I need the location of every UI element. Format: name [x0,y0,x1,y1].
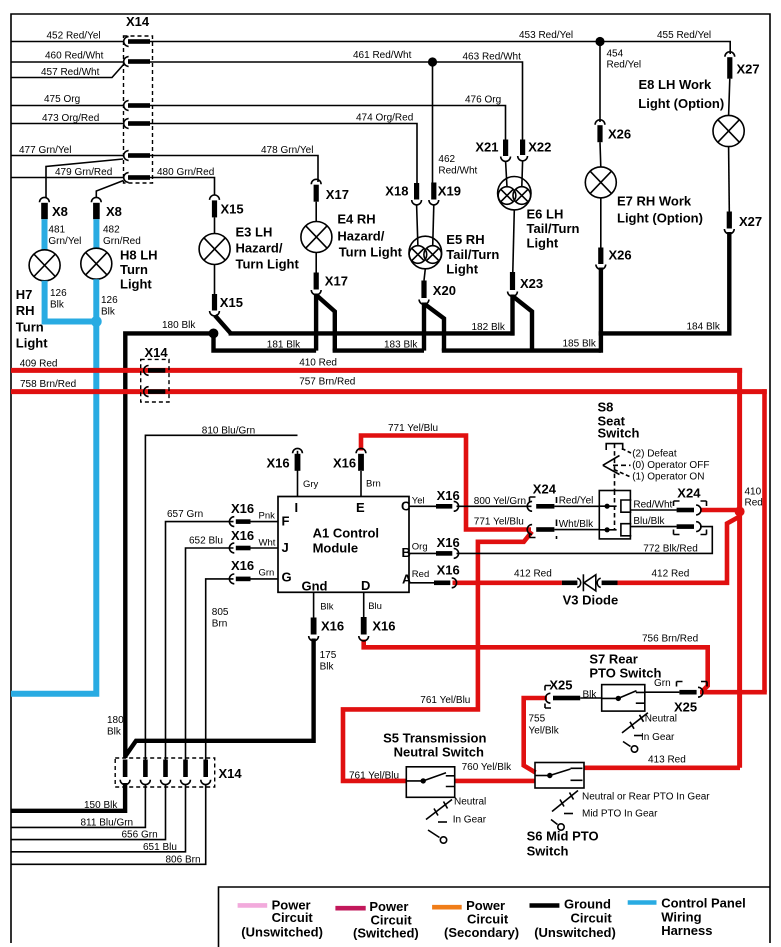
wire 482 branch to X8 [96,181,123,198]
wire 455 Red/Yel [600,42,730,55]
wire 771 Yel/Blu (E pin to X24) [361,436,531,530]
connector X16 (I pin) [267,448,303,470]
connector X23 [508,272,544,296]
wire 410 Red vertical [737,368,742,768]
wire X24 upper right to 410 [700,508,740,513]
svg-text:A1 Control: A1 Control [313,526,379,541]
connector X15 (upper) [210,195,244,217]
wire 412 Red (A pin to diode) [453,580,562,585]
connector X17 (lower) [311,273,348,295]
wire X19 to E5 [433,205,434,246]
svg-text:B: B [402,545,411,560]
connector X16 (E pin) [333,448,366,470]
wire 478 Grn/Yel [150,156,318,183]
wire 461 Red/Wht [150,61,433,63]
wire 476 Org [150,106,506,140]
wire 454 Red/Yel [599,42,601,123]
svg-text:Module: Module [313,541,359,556]
svg-text:181 Blk: 181 Blk [267,340,301,351]
wire 477 Grn/Yel [11,155,124,157]
svg-text:X16: X16 [231,558,254,573]
S5 lever symbol [426,797,487,844]
svg-text:806 Brn: 806 Brn [166,855,201,866]
wire 806 Brn [11,785,206,865]
wire X21 to E6 [506,162,507,188]
svg-text:X16: X16 [437,535,460,550]
svg-text:180 Blk: 180 Blk [162,320,196,331]
svg-text:X16: X16 [372,619,395,634]
wire 761 Yel/Blu (X24 to S5) [343,532,532,781]
svg-text:412 Red: 412 Red [652,569,690,580]
svg-text:Gry: Gry [303,479,319,490]
connector X18 [385,183,421,205]
svg-text:656 Grn: 656 Grn [122,830,158,841]
module A1 Control Module [278,497,412,594]
svg-text:X27: X27 [737,62,760,77]
svg-text:410: 410 [745,487,762,498]
svg-text:461 Red/Wht: 461 Red/Wht [353,50,412,61]
svg-text:S5 Transmission: S5 Transmission [383,731,486,746]
svg-text:182 Blk: 182 Blk [472,322,506,333]
svg-text:126: 126 [50,288,67,299]
wire 126 Blk (H7, cyan) [45,281,97,322]
svg-text:X14: X14 [145,345,169,360]
svg-text:126: 126 [101,295,118,306]
svg-text:Blk: Blk [320,662,335,673]
node 410/412 junction [735,507,745,517]
svg-text:X16: X16 [231,528,254,543]
svg-text:452 Red/Yel: 452 Red/Yel [47,31,101,42]
X14 bottom pin 2 [141,760,151,785]
wire 800 Yel/Grn (C pin to X24) [409,505,436,507]
X14 mid pin 1 [144,366,166,376]
wire 811 Blu/Grn [11,785,145,828]
wire X23 ground diagonal [513,297,532,351]
wire 772 Blk/Red (B pin to X24 lower right) [409,552,436,554]
connector X15 (lower) [210,294,243,316]
svg-text:(Unswitched): (Unswitched) [534,925,616,940]
connector X16 (D pin) [359,617,396,641]
svg-text:477 Grn/Yel: 477 Grn/Yel [19,145,71,156]
wire Wht/Blk (X24 to S8) [554,529,599,531]
svg-text:Blk: Blk [50,300,65,311]
svg-text:761 Yel/Blu: 761 Yel/Blu [349,770,399,781]
svg-text:Turn Light: Turn Light [339,245,403,260]
wire 474 Org/Red [150,124,417,184]
svg-text:I: I [295,500,299,515]
svg-text:J: J [282,540,289,555]
svg-text:X8: X8 [106,204,122,219]
wire 760 Yel/Blk (S5 to S6) [455,779,535,784]
svg-text:Yel/Blk: Yel/Blk [529,726,560,737]
svg-text:Red/Wht: Red/Wht [633,500,672,511]
svg-text:Blk: Blk [320,602,333,613]
wire X25 right to 757 vertical [700,690,767,695]
wire E4 to X17 lower [315,253,317,273]
svg-text:Blu: Blu [368,601,382,612]
connector X26 (lower) [596,248,632,270]
svg-text:756 Brn/Red: 756 Brn/Red [642,634,698,645]
svg-text:473 Org/Red: 473 Org/Red [42,113,99,124]
wire 475 Org [11,105,124,107]
connector X25 (right) [674,682,707,715]
svg-text:475 Org: 475 Org [44,94,80,105]
X14 bottom pin 1 [120,760,130,785]
svg-text:474 Org/Red: 474 Org/Red [356,113,413,124]
connector X16 (A pin) [434,563,460,588]
svg-text:S7 Rear: S7 Rear [589,652,637,667]
legend: Power Circuit (Switched) crimson [335,899,418,941]
svg-text:412 Red: 412 Red [514,569,552,580]
svg-text:Turn: Turn [16,320,44,335]
svg-text:E7 RH Work: E7 RH Work [617,194,692,209]
wire 183 Blk [333,348,424,352]
wire E8 to X27 lower [728,147,731,212]
connector X14 (middle, dashed housing) [141,345,169,402]
svg-text:X26: X26 [609,248,632,263]
svg-text:Brn: Brn [212,619,228,630]
svg-text:410 Red: 410 Red [299,358,337,369]
connector X16 (G pin) [229,558,254,584]
svg-text:X16: X16 [267,456,290,471]
svg-text:457 Red/Wht: 457 Red/Wht [41,67,100,78]
svg-text:150 Blk: 150 Blk [84,800,118,811]
svg-text:Light (Option): Light (Option) [638,96,724,111]
svg-text:X16: X16 [437,488,460,503]
svg-text:(Unswitched): (Unswitched) [241,925,323,940]
svg-text:Org: Org [412,542,428,553]
svg-text:Neutral: Neutral [645,714,677,725]
X14 bottom pin 5 [201,760,211,785]
svg-text:In Gear: In Gear [641,732,675,743]
svg-text:185 Blk: 185 Blk [563,339,597,350]
svg-text:481: 481 [48,225,65,236]
svg-text:S8: S8 [598,400,614,415]
wire 452 Red/Yel [11,41,124,43]
X14 bottom pin 3 [161,760,171,785]
svg-text:453 Red/Yel: 453 Red/Yel [519,30,573,41]
wire 651 Blu [11,785,186,852]
legend: Power Circuit (Secondary) orange [432,898,519,940]
svg-text:S6 Mid PTO: S6 Mid PTO [527,829,599,844]
svg-text:Blk: Blk [101,307,116,318]
svg-text:Turn Light: Turn Light [236,257,300,272]
svg-text:Grn: Grn [259,568,275,579]
svg-text:Light: Light [527,236,559,251]
wire E5 to X20 [424,269,425,281]
svg-text:X24: X24 [533,482,557,497]
wire 409/410 Red [11,368,742,373]
lamp H8 LH Turn Light [81,248,158,292]
svg-text:E5 RH: E5 RH [446,232,484,247]
wire ground from module Gnd pin [125,639,314,757]
wire 656 Grn [11,785,166,840]
wire E3 to X15 lower [214,265,216,295]
connector X16 (J pin) [229,528,254,553]
svg-text:G: G [282,570,292,585]
wire 412 Red (diode to 410 vertical) [618,517,740,583]
svg-text:Red/Wht: Red/Wht [438,166,477,177]
connector X14 (top, dashed housing) [124,14,153,183]
svg-text:Circuit: Circuit [272,910,314,925]
wire X23 ground drop [510,295,514,336]
wire X27 to E8 [729,79,730,116]
svg-text:X25: X25 [674,700,697,715]
wire 810 Blu/Grn (I pin) [297,451,299,497]
svg-text:Light: Light [16,336,48,351]
connector X24 (right pair) [674,486,707,535]
svg-text:Hazard/: Hazard/ [236,241,283,256]
svg-text:E8 LH Work: E8 LH Work [639,77,712,92]
wire 481 Grn/Yel (cyan) [42,219,48,250]
switch S8 Seat Switch [598,400,640,441]
svg-text:757 Brn/Red: 757 Brn/Red [299,377,355,388]
svg-text:Control Panel: Control Panel [661,896,746,911]
wire 185 Blk [442,348,601,352]
S8 selector symbol [603,444,710,491]
wire 181 Blk [214,334,317,351]
svg-text:Circuit: Circuit [571,911,613,926]
svg-text:Gnd: Gnd [302,579,328,594]
svg-text:760 Yel/Blk: 760 Yel/Blk [462,762,512,773]
svg-text:Grn/Red: Grn/Red [103,236,141,247]
wire 453 Red/Yel [150,41,600,43]
svg-text:184 Blk: 184 Blk [687,322,721,333]
wire A pin to X16 [409,582,434,584]
wire 482 Grn/Red (cyan) [93,219,99,249]
connector X27 (top) [725,52,760,79]
svg-text:651 Blu: 651 Blu [143,842,177,853]
svg-text:Hazard/: Hazard/ [337,229,384,244]
wire 481 branch to X8 [46,159,123,198]
svg-text:X16: X16 [437,563,460,578]
svg-text:RH: RH [16,303,35,318]
svg-text:F: F [282,514,290,529]
S8 switch box [599,491,631,539]
svg-text:(0) Operator OFF: (0) Operator OFF [632,460,709,471]
wire X18 to E5 [417,205,418,246]
svg-text:X26: X26 [608,127,631,142]
svg-text:X20: X20 [433,283,456,298]
svg-text:Blk: Blk [107,727,122,738]
svg-text:413 Red: 413 Red [648,755,686,766]
svg-text:175: 175 [320,650,337,661]
svg-text:X14: X14 [126,14,150,29]
wire E pin upper [360,471,362,497]
X14 pin 3 (475/476 Org) [124,101,150,111]
svg-text:(1) Operator ON: (1) Operator ON [632,472,704,483]
connector X27 (lower) [724,212,762,234]
connector X25 (left) [545,678,580,709]
svg-text:462: 462 [438,154,455,165]
svg-text:Light: Light [120,277,152,292]
svg-text:Turn: Turn [120,262,148,277]
svg-text:771 Yel/Blu: 771 Yel/Blu [474,517,524,528]
svg-text:Red/Yel: Red/Yel [559,496,594,507]
svg-text:E4 RH: E4 RH [337,212,375,227]
S6 lever symbol [551,791,710,831]
lamp E3 LH Hazard/Turn Light [199,225,299,272]
svg-text:X27: X27 [739,214,762,229]
svg-text:X8: X8 [52,204,68,219]
svg-text:X25: X25 [549,678,572,693]
connector X8 (H8) [91,197,122,219]
svg-text:Brn: Brn [366,479,381,490]
svg-text:Wht/Blk: Wht/Blk [559,519,594,530]
X14 pin 1 (452 Red/Yel) [124,37,150,47]
svg-text:Wht: Wht [259,538,276,549]
X14 pin 5 (477/478 Grn/Yel) [124,151,150,161]
lamp E4 RH Hazard/Turn Light [301,212,403,260]
svg-text:Yel: Yel [412,496,425,507]
svg-text:(2) Defeat: (2) Defeat [632,449,677,460]
svg-text:482: 482 [103,225,120,236]
svg-text:X24: X24 [677,486,701,501]
wire X17 ground drop [314,294,318,351]
wire 755 Yel/Blk (X25 left to S6) [524,698,547,773]
legend: Control Panel Wiring Harness cyan [628,896,746,939]
svg-text:X19: X19 [438,184,461,199]
wire E7 to X26 lower [600,198,602,248]
connector X8 (H7) [40,197,68,219]
wire Red/Yel (X24 to S8) [554,505,599,507]
svg-text:Neutral Switch: Neutral Switch [394,745,484,760]
svg-text:(Switched): (Switched) [353,926,419,941]
wire X15 ground diagonal [215,316,231,334]
wire 413 Red (S6 to 410 vertical) [584,765,740,770]
svg-text:409 Red: 409 Red [20,359,58,370]
svg-text:X18: X18 [385,184,408,199]
svg-text:478 Grn/Yel: 478 Grn/Yel [261,145,313,156]
wire 757 Brn/Red vertical [762,389,767,692]
wire 180 Blk (horizontal + vertical to bottom X14) [125,333,213,758]
svg-text:(Secondary): (Secondary) [444,925,519,940]
svg-text:H7: H7 [16,287,33,302]
svg-text:Harness: Harness [661,923,712,938]
svg-text:800 Yel/Grn: 800 Yel/Grn [474,496,526,507]
X14 mid pin 2 [144,387,166,397]
wire 657 Grn (F pin) [251,521,279,523]
legend: Power Circuit (Unswitched) pink [238,898,323,940]
svg-text:E3 LH: E3 LH [236,225,273,240]
connector X14 (bottom, dashed housing) [115,758,242,787]
wire X26 ground drop [599,268,603,353]
svg-text:755: 755 [529,714,546,725]
lamp E8 LH Work Light (Option) [638,77,744,147]
svg-text:Switch: Switch [527,844,569,859]
wire D pin lower [363,592,365,617]
X14 pin 2 (460/461 Red/Wht) [124,57,150,67]
svg-text:Mid PTO In Gear: Mid PTO In Gear [582,809,658,820]
connector X21 [475,140,510,162]
svg-text:183 Blk: 183 Blk [384,340,418,351]
svg-text:Red: Red [412,569,429,580]
S7 lever symbol [622,713,677,752]
svg-text:460 Red/Wht: 460 Red/Wht [45,51,104,62]
switch S7 Rear PTO Switch [589,652,661,712]
svg-text:In Gear: In Gear [453,815,487,826]
wire X17 to E4 [315,202,317,222]
svg-text:Switch: Switch [598,426,640,441]
wire X20 ground diagonal [425,304,444,351]
wire 150 Blk [11,783,125,811]
svg-text:X22: X22 [528,140,551,155]
svg-text:810 Blu/Grn: 810 Blu/Grn [202,426,255,437]
lamp E7 RH Work Light (Option) [585,167,703,226]
svg-text:X17: X17 [325,274,348,289]
node ground junction [209,329,219,339]
svg-text:463 Red/Wht: 463 Red/Wht [463,52,522,63]
connector X16 (B pin) [436,535,460,558]
svg-text:Blk: Blk [583,690,598,701]
wire 479 Grn/Red [11,177,124,179]
svg-text:X15: X15 [220,295,243,310]
svg-text:X23: X23 [520,276,543,291]
svg-text:D: D [361,578,370,593]
wire X15 to E3 [214,217,216,233]
svg-text:X21: X21 [475,140,498,155]
wire X22 to E6 [521,161,524,187]
connector X16 (Gnd pin) [309,618,344,641]
wire 463 Red/Wht [433,62,523,140]
connector X24 (left pair) [527,482,557,540]
X14 pin 4 (473/474 Org/Red) [124,119,150,129]
svg-text:476 Org: 476 Org [465,95,501,106]
svg-text:657 Grn: 657 Grn [167,509,203,520]
wire 473 Org/Red [11,123,124,125]
X14 bottom pin 4 [181,760,191,785]
svg-text:Grn: Grn [654,678,671,689]
wire 462 Red/Wht [432,62,434,183]
svg-text:805: 805 [212,607,229,618]
svg-text:758 Brn/Red: 758 Brn/Red [20,379,76,390]
wire 480 Grn/Red [150,178,215,196]
wire Blu/Blk (S8 to X24 right) [630,526,676,528]
svg-text:454: 454 [607,49,624,60]
svg-text:H8 LH: H8 LH [120,248,158,263]
svg-text:X16: X16 [231,501,254,516]
svg-text:A: A [402,572,412,587]
connector X22 [518,140,552,161]
wire ground bus upper (to 182 Blk) [229,331,515,335]
connector X19 [429,183,461,205]
svg-text:180: 180 [107,715,124,726]
svg-text:Red/Yel: Red/Yel [607,60,642,71]
connector X26 (upper) [595,120,631,142]
svg-text:X16: X16 [321,619,344,634]
svg-text:Light (Option): Light (Option) [617,211,703,226]
svg-text:Ground: Ground [564,897,611,912]
connector X16 (C pin) [436,488,460,511]
svg-text:652 Blu: 652 Blu [189,536,223,547]
svg-text:771 Yel/Blu: 771 Yel/Blu [388,423,438,434]
wire X17 ground diagonal [317,296,335,351]
svg-text:811 Blu/Grn: 811 Blu/Grn [81,818,134,829]
legend: Ground Circuit (Unswitched) black [530,897,616,941]
svg-text:Red: Red [745,498,763,509]
svg-text:479 Grn/Red: 479 Grn/Red [55,167,112,178]
svg-text:Pnk: Pnk [259,511,276,522]
X14 pin 6 (479/480 Grn/Red) [124,173,150,183]
svg-text:X16: X16 [333,456,356,471]
svg-text:Neutral: Neutral [454,797,486,808]
switch S5 Transmission Neutral Switch [383,731,486,798]
wire Red/Wht (S8 to X24 right) [630,509,676,511]
wire Grn (S7 to X25 right) [645,691,680,693]
svg-text:X14: X14 [219,766,243,781]
wire 756 Brn/Red (D pin to X25 area) [364,640,708,692]
node 461/462/463 junction [428,57,437,66]
